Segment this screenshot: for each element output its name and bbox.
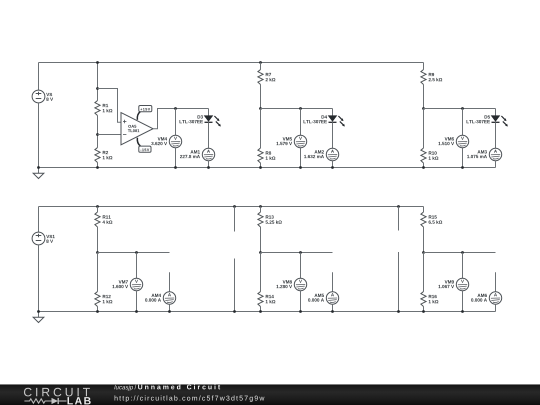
node D (R9/R10 midpoint) [422,107,425,110]
wire D3 cathode to AM1 [208,122,210,148]
wire R12 bottom lead [97,307,99,312]
junction VM4 / bottom rail [174,166,177,169]
wire AM5 bottom lead [332,304,334,311]
wire top rail (row 2) [39,206,424,208]
wire VM8 top lead [300,253,302,279]
footer title text: lucasjp / Unnamed Circuit [100,384,540,405]
voltmeter VM5 [276,135,306,147]
wire node G horizontal (open end) [424,252,496,254]
wire VM9 top lead [462,253,464,279]
footer bar [0,384,540,405]
node A (op-amp + input tap) [96,87,99,90]
junction stub / top rail (right) [397,205,400,208]
wire R8 bottom lead [260,163,262,168]
footer url text: http://circuitlab.com/c5f7w3dt57g9w [115,395,265,402]
junction R14 / bottom rail [259,310,262,313]
wire node E horizontal (open end) [98,252,170,254]
junction at ground (row 1) [37,166,40,169]
junction AM5 / bottom rail [331,310,334,313]
resistor R15 [421,212,442,227]
node B (R1/R2 divider midpoint) [96,133,99,136]
+15V power label [139,106,152,112]
ammeter AM4 [145,292,176,304]
junction VM4 tap [174,107,177,110]
resistor R1 [95,101,112,116]
wire R9 bottom lead [423,85,425,109]
junction R2 / bottom rail [96,166,99,169]
wire VM4 top lead [175,109,177,136]
resistor R14 [258,292,275,307]
wire R14 bottom lead [260,307,262,312]
wire op-amp output node [153,109,209,129]
resistor R12 [95,292,112,307]
wire AM5 floating top stub [332,272,334,292]
op-amp OA5 (TL081) [121,113,153,145]
voltmeter VM8 [276,278,306,290]
wire AM3 bottom lead [495,161,497,168]
LED D4 [304,115,345,126]
wire D4 anode lead [332,109,334,116]
voltmeter VM6 [438,135,468,147]
junction R10 / bottom rail [422,166,425,169]
junction VM7 / bottom rail [135,310,138,313]
junction AM4 / bottom rail [168,310,171,313]
wire R10 top lead [423,109,425,149]
wire VM6 bottom lead [462,148,464,168]
ground (row 1) [33,168,44,179]
wire R16 bottom lead [423,307,425,312]
junction R13 / top rail [259,205,262,208]
ammeter AM3 [467,148,502,160]
junction VM7 tap [135,251,138,254]
wire to op-amp inverting input [98,134,122,136]
wire open stub from top rail (right) [398,207,400,231]
junction R1 column / top rail [96,61,99,64]
junction stub / bottom rail (middle) [233,310,236,313]
wire AM2 bottom lead [332,161,334,168]
junction VM6 tap [461,107,464,110]
wire R15 top lead [423,207,425,213]
wire R16 top lead [423,253,425,292]
node G (R15/R16 midpoint) [422,251,425,254]
voltage source VS [32,90,53,103]
wire R7 top lead [260,63,262,70]
junction stub / bottom rail (right) [397,310,400,313]
wire R13 top lead [260,207,262,213]
junction VM5 tap [299,107,302,110]
resistor R11 [95,212,112,227]
junction VM6 / bottom rail [461,166,464,169]
LED D3 [180,115,221,126]
CircuitLab logo [0,384,110,405]
ammeter AM6 [471,292,502,304]
wire D5 anode lead [495,109,497,116]
wire bottom rail (row 1, ground net) [39,167,496,169]
wire VM7 top lead [136,253,138,279]
ammeter AM5 [308,292,339,304]
junction at ground (row 2) [37,310,40,313]
junction VM8 tap [299,251,302,254]
resistor R10 [421,148,438,163]
wire VS1 bottom lead [38,245,40,312]
op-amp V- supply wire [137,138,140,146]
wire D5 cathode to AM3 [495,122,497,148]
wire VM8 bottom lead [300,291,302,312]
wire node D horizontal [424,108,496,110]
node E (R11/R12 midpoint) [96,251,99,254]
ammeter AM1 [180,148,215,160]
wire R15 bottom lead [423,227,425,253]
node C (R7/R8 midpoint) [259,107,262,110]
voltage source VS1 [32,232,55,245]
voltmeter VM7 [112,278,142,290]
wire VM4 bottom lead [175,148,177,168]
junction R11 / top rail [96,205,99,208]
wire R13 bottom lead [260,227,262,253]
junction VM9 / bottom rail [461,310,464,313]
wire R1 top lead [97,63,99,101]
junction AM1 / bottom rail [207,166,210,169]
voltmeter VM4 [151,135,181,147]
-15V power label [139,146,151,152]
node F (R13/R14 midpoint) [259,251,262,254]
wire D3 anode lead [208,109,210,116]
wire AM4 floating top stub [169,272,171,292]
wire R10 bottom lead [423,163,425,168]
wire VM7 bottom lead [136,291,138,312]
wire VM5 top lead [300,109,302,136]
wire VS bottom lead [38,103,40,168]
wire AM4 bottom lead [169,304,171,311]
resistor R8 [258,148,275,163]
resistor R2 [95,148,112,163]
ground (row 2) [33,312,44,323]
wire open stub from top rail (middle) [234,207,236,232]
wire bottom rail (row 2, ground net) [39,311,496,313]
resistor R13 [258,212,282,227]
resistor R9 [421,70,442,85]
resistor R16 [421,292,438,307]
wire VS1 top lead [38,207,40,233]
voltmeter VM9 [438,278,468,290]
wire R12 top lead [97,253,99,292]
wire top rail (row 1, +8V net) [39,62,424,64]
wire VM6 top lead [462,109,464,136]
wire R14 top lead [260,253,262,292]
junction R8 / bottom rail [259,166,262,169]
junction VM5 / bottom rail [299,166,302,169]
wire R7 bottom lead [260,85,262,109]
wire AM1 bottom lead [208,161,210,168]
junction VM8 / bottom rail [299,310,302,313]
junction stub / top rail (middle) [233,205,236,208]
wire R11 bottom lead [97,227,99,253]
wire to op-amp non-inverting input [98,89,122,123]
resistor R7 [258,70,275,85]
wire node C horizontal [261,108,333,110]
wire R2 bottom lead [97,163,99,168]
LED D5 [467,115,508,126]
wire AM6 floating top stub [495,272,497,292]
wire node F horizontal (open end) [261,252,333,254]
wire open stub to bottom rail (middle) [234,259,236,312]
junction R16 / bottom rail [422,310,425,313]
wire VS top lead [38,63,40,91]
wire R8 top lead [260,109,262,149]
wire R1-R2 link [97,116,99,148]
junction AM2 / bottom rail [331,166,334,169]
wire R11 top lead [97,207,99,213]
op-amp V+ supply wire [137,112,140,120]
ammeter AM2 [304,148,339,160]
wire VM9 bottom lead [462,291,464,312]
wire R9 top lead [423,63,425,70]
junction R12 / bottom rail [96,310,99,313]
wire AM6 bottom lead [495,304,497,311]
junction VM9 tap [461,251,464,254]
junction R7 column / top rail [259,61,262,64]
wire open stub to bottom rail (right) [398,252,400,312]
wire D4 cathode to AM2 [332,122,334,148]
wire VM5 bottom lead [300,148,302,168]
